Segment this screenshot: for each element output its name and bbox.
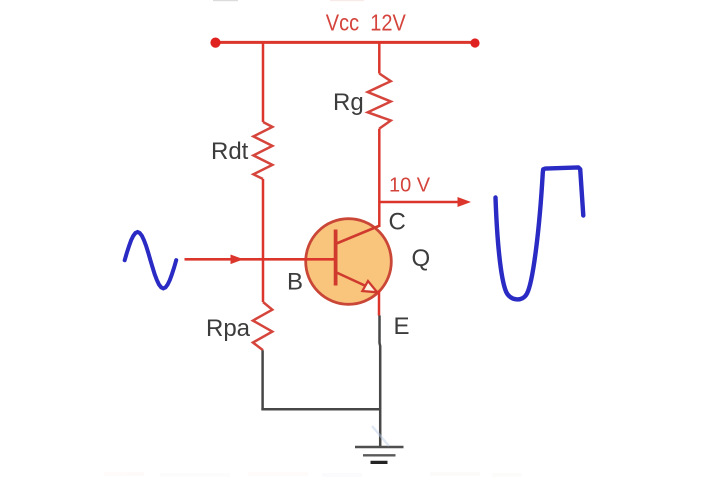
ground symbol [355,447,404,462]
wire left branch middle (Rdt to Rpa) [262,179,265,302]
arrowhead input [231,255,244,265]
arrowhead 10V output [458,197,472,207]
wire collector (Rg to transistor) [378,129,381,227]
svg-text:Rdt: Rdt [211,138,249,165]
watermark smudge near ground [372,426,389,446]
output waveform [496,167,584,299]
svg-text:Rpa: Rpa [206,315,251,342]
wire input line to base [185,258,336,261]
svg-text:10 V: 10 V [389,175,431,197]
svg-text:Q: Q [412,245,431,272]
transistor Q collector line [337,226,381,244]
svg-text:Vcc 12V: Vcc 12V [326,10,406,36]
wire left branch upper (rail to Rdt) [262,42,265,122]
svg-text:Rg: Rg [333,89,364,116]
resistor Rg [368,74,391,129]
transistor Q body [306,219,392,305]
wire right branch upper (rail to Rg) [378,42,381,73]
transistor Q emitter line [337,273,369,288]
crop artifact bottom edge [104,472,522,477]
wire Vcc rail [213,41,476,44]
wire bottom horizontal [261,408,379,411]
wire emitter black segment to ground [378,316,381,448]
resistor Rdt [253,122,272,179]
resistor Rpa [253,302,272,350]
transistor Q emitter arrowhead [362,281,377,292]
crop artifact top edge [213,0,238,1]
wire 10V arrow line [379,201,461,204]
node right rail junction [470,38,479,47]
svg-text:C: C [389,209,406,236]
svg-text:B: B [287,269,303,296]
node left rail junction [210,38,220,48]
wire left branch lower black (Rpa to bottom) [261,350,264,410]
input sine source [125,232,177,288]
wire emitter red segment [378,291,381,316]
svg-text:E: E [394,313,410,340]
transistor Q base bar [334,230,338,286]
